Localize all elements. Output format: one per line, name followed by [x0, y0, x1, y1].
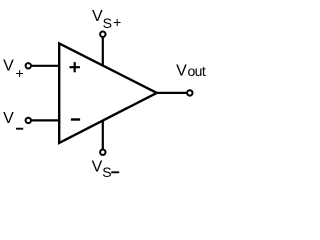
non-inverting input marker +: [70, 62, 80, 72]
label VS-: [92, 159, 120, 181]
terminal: Vout: [187, 90, 192, 95]
terminal: VS+ supply: [100, 32, 105, 37]
svg-text:+: +: [16, 65, 24, 81]
label Vout: [176, 63, 206, 80]
terminal: VS- supply: [100, 150, 105, 155]
label V-: [3, 110, 23, 129]
wire: output: [156, 92, 190, 94]
inverting input marker -: [71, 118, 80, 120]
label V+: [3, 58, 24, 81]
svg-text:V: V: [176, 63, 187, 80]
terminal: V- input: [26, 118, 31, 123]
svg-text:S: S: [103, 15, 112, 31]
wire: inverting input V-: [28, 119, 60, 121]
svg-text:S: S: [102, 164, 111, 180]
terminal: V+ input: [26, 63, 31, 68]
op-amp U1 triangle body: [59, 43, 157, 142]
wire: negative supply VS-: [102, 120, 104, 153]
label VS+: [92, 8, 121, 31]
svg-text:V: V: [92, 8, 103, 25]
svg-text:V: V: [3, 58, 14, 75]
svg-text:V: V: [3, 110, 14, 127]
wire: positive supply VS+: [102, 34, 104, 67]
svg-text:V: V: [92, 159, 103, 176]
svg-text:out: out: [188, 63, 206, 79]
wire: non-inverting input V+: [28, 65, 60, 67]
svg-text:+: +: [113, 14, 121, 30]
